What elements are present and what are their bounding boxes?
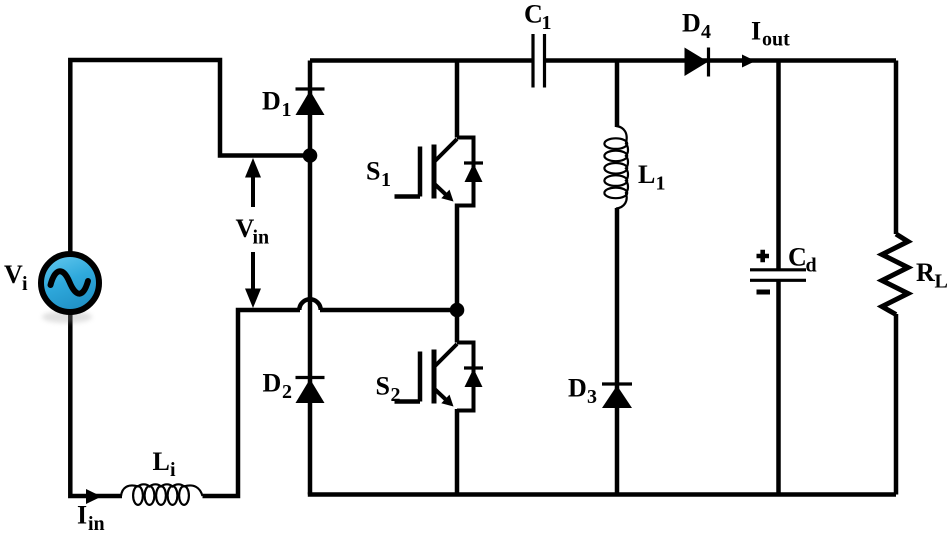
svg-text:i: i [170, 459, 176, 481]
svg-text:2: 2 [282, 381, 292, 403]
svg-text:3: 3 [587, 386, 597, 408]
wire: mid rail to S-branch node [320, 308, 457, 313]
svg-text:i: i [22, 273, 28, 295]
svg-text:I: I [751, 17, 761, 46]
svg-text:S: S [376, 372, 390, 401]
inductor Li (coil loops) [121, 484, 203, 505]
diode D4 [685, 48, 709, 77]
wire: D1/D2 vertical branch [308, 61, 313, 495]
svg-text:C: C [788, 243, 807, 272]
svg-text:R: R [916, 258, 935, 287]
svg-text:d: d [806, 255, 817, 277]
transistor S2 (IGBT with anti-parallel diode) [395, 343, 484, 411]
svg-text:I: I [77, 501, 87, 530]
svg-text:4: 4 [701, 21, 711, 43]
wire: L1/D3 branch bottom [615, 208, 620, 495]
svg-text:1: 1 [656, 173, 666, 195]
svg-text:out: out [762, 29, 790, 51]
svg-text:L: L [153, 447, 170, 476]
diode D1 [296, 89, 325, 115]
voltage source Vi (AC source circle) [41, 254, 99, 323]
svg-text:V: V [4, 260, 23, 289]
arrow Iin (arrowhead on bottom-left wire) [86, 489, 102, 504]
svg-text:2: 2 [391, 384, 401, 406]
arrow Vin down [245, 252, 261, 308]
svg-text:L: L [935, 271, 948, 293]
svg-text:D: D [262, 87, 281, 116]
resistor RL (zigzag) [882, 234, 908, 315]
node B (mid-rail / S-branch node) [450, 303, 465, 318]
diode D2 [296, 378, 325, 404]
wire: RL branch bottom [894, 314, 899, 495]
svg-text:C: C [524, 0, 543, 29]
diode D3 [602, 384, 632, 408]
svg-text:D: D [682, 9, 701, 38]
svg-text:1: 1 [381, 169, 391, 191]
wire: hop over D1/D2 branch [299, 299, 320, 310]
capacitor Cd [750, 250, 806, 292]
wire: S-branch verticals [455, 61, 460, 495]
svg-text:L: L [638, 160, 655, 189]
svg-text:D: D [568, 374, 587, 403]
wire: Vi bottom lead down and right to Li [70, 312, 122, 496]
wire: Vi top lead, top-left horizontal run and jog down to Vin node [70, 60, 310, 254]
transistor S1 (IGBT with anti-parallel diode) [395, 138, 484, 206]
svg-text:1: 1 [542, 12, 552, 34]
svg-text:in: in [253, 227, 270, 249]
capacitor C1 [533, 34, 545, 88]
wire: top rail right part (C1 to RL corner) [546, 58, 897, 63]
wire: RL branch top [894, 61, 899, 235]
wire: bottom rail [308, 492, 896, 497]
arrow Vin up [245, 158, 261, 207]
arrow Iout (arrowhead on top rail) [742, 55, 756, 68]
svg-text:in: in [88, 513, 105, 535]
node A (Vin top node) [303, 148, 318, 163]
wire: L1/D3 branch top [615, 61, 620, 128]
svg-text:D: D [263, 369, 282, 398]
svg-text:1: 1 [282, 99, 292, 121]
svg-text:S: S [366, 157, 380, 186]
wire: Li right lead up to mid rail [203, 310, 301, 496]
wire: top rail left part (to C1) [310, 58, 532, 63]
inductor L1 (coil loops) [604, 126, 628, 209]
wire: Cd branch [776, 61, 781, 495]
